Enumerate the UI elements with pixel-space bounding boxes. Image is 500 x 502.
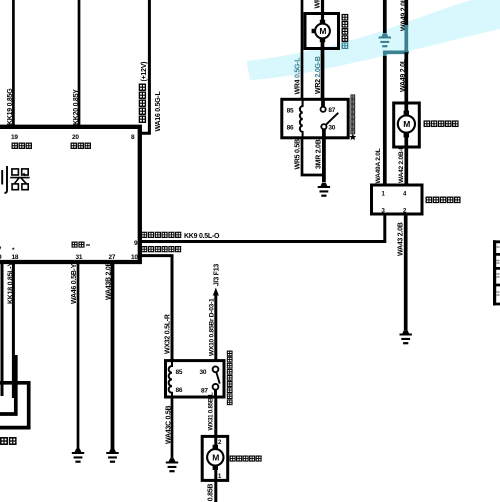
- svg-text:KK9 0.5L-O: KK9 0.5L-O: [184, 233, 220, 240]
- svg-text:WA46 0.5B-Y: WA46 0.5B-Y: [71, 263, 78, 304]
- wire WR4 to relay coil: [301, 0, 304, 99]
- wire WR1 above condenser fan: [321, 0, 324, 21]
- label 背光-: [72, 242, 90, 247]
- svg-text:J/3 F13: J/3 F13: [214, 264, 221, 286]
- label 内循环: [12, 143, 31, 148]
- wire WA49A to module pin1: [383, 56, 387, 185]
- svg-text:86: 86: [176, 387, 183, 394]
- svg-text:M: M: [319, 26, 326, 36]
- svg-text:WA42 2.0B-L: WA42 2.0B-L: [398, 146, 405, 183]
- servo motor box (bottom left, cut): [0, 355, 16, 414]
- label 后鼓风马达: [230, 456, 261, 461]
- ground for 3MR: [318, 183, 330, 197]
- front speed module box: [372, 185, 423, 214]
- svg-text:WR2 2.0G-B: WR2 2.0G-B: [315, 56, 322, 94]
- wire left edge pin: [1, 262, 4, 396]
- svg-text:30: 30: [200, 369, 207, 376]
- wire WA42 blower to module: [404, 136, 408, 185]
- wire WX33 below rear motor: [214, 468, 217, 502]
- condenser fan motor box: [305, 14, 339, 49]
- relay2 switch: [213, 366, 220, 397]
- svg-text:86: 86: [287, 125, 294, 132]
- ground for WA43: [400, 330, 412, 344]
- svg-text:10: 10: [131, 254, 138, 261]
- wire WA46 from pin31: [77, 262, 80, 449]
- svg-text:WX33 0.85B: WX33 0.85B: [208, 484, 215, 502]
- svg-text:WA43C 0.5B: WA43C 0.5B: [166, 405, 173, 444]
- condenser fan relay K1: [282, 99, 348, 138]
- label 前调速模块: [426, 197, 460, 202]
- wire WA43 to ground: [404, 214, 408, 330]
- teal wire jog: [385, 25, 407, 58]
- rear blower motor M: [207, 445, 223, 470]
- relay coil: [300, 99, 303, 138]
- wire rear blower control: [140, 256, 172, 361]
- wire stub to teal ground: [383, 0, 387, 33]
- svg-text:85: 85: [176, 369, 183, 376]
- label 鼓风机马达: [424, 121, 458, 126]
- wire WA43B from pin27: [111, 262, 115, 449]
- svg-text:18: 18: [12, 254, 19, 261]
- condenser fan motor M: [312, 20, 330, 42]
- svg-text:20: 20: [72, 134, 79, 141]
- svg-text:KK19 0.85G: KK19 0.85G: [7, 88, 14, 125]
- svg-text:WX31 0.85B-L: WX31 0.85B-L: [208, 392, 215, 430]
- label 外循环: [71, 143, 90, 148]
- A/C controller box U1: [0, 127, 140, 262]
- svg-text:WX10 0.85Br D-03-1: WX10 0.85Br D-03-1: [208, 298, 215, 356]
- svg-text:30: 30: [328, 125, 335, 132]
- svg-text:WR5 0.5B: WR5 0.5B: [294, 139, 301, 169]
- ground for WA43B: [106, 449, 118, 463]
- wire 3MR to ground: [322, 138, 326, 182]
- wire WX31 relay to rear motor: [214, 397, 217, 448]
- connector table right edge: [493, 240, 500, 305]
- wire WA49 into blower: [404, 52, 408, 112]
- relay2 coil: [169, 361, 172, 397]
- label 前鼓风机控制 KK9 0.5L-O: [142, 232, 220, 240]
- star marker: [349, 134, 356, 141]
- rear blower motor box: [202, 436, 228, 480]
- wire KK18 from pin18 down: [12, 262, 15, 398]
- label 冷凝器风扇: [342, 14, 348, 41]
- svg-text:31: 31: [76, 254, 83, 261]
- label 后鼓风机控制: [142, 247, 181, 252]
- svg-text:WA16 0.5G-L: WA16 0.5G-L: [155, 90, 162, 131]
- wire WX10 with arrow to fuse F13: [214, 294, 217, 361]
- label 冷凝器风扇继电器: [351, 95, 355, 134]
- svg-text:WR1 2.0R: WR1 2.0R: [315, 0, 322, 9]
- label 电机: [1, 438, 16, 444]
- svg-text:WA49A 2.0L: WA49A 2.0L: [375, 148, 382, 183]
- wire front blower control KK9: [140, 214, 385, 242]
- svg-text:KK18 0.85L-Y: KK18 0.85L-Y: [7, 262, 14, 304]
- highlight swoosh band: [247, 0, 500, 80]
- blower motor M: [398, 111, 415, 138]
- wire WR2 from motor to relay: [321, 41, 325, 99]
- wire WA49 upper: [404, 0, 408, 27]
- svg-text:3MR 2.0B: 3MR 2.0B: [315, 139, 322, 169]
- svg-text:(+12V): (+12V): [141, 62, 148, 82]
- wire WA16 compressor control: [140, 0, 150, 133]
- label 压缩机控制(+12V): [139, 62, 148, 122]
- svg-text:87: 87: [328, 107, 335, 114]
- rear blower unit relay K2: [166, 361, 225, 397]
- teal junction node: [404, 50, 409, 55]
- wire WR5 from relay coil: [302, 138, 324, 175]
- teal chassis ground: [379, 33, 391, 47]
- svg-text:M: M: [212, 453, 219, 463]
- ground for WA43C: [166, 458, 178, 472]
- svg-text:WA43B 2.0B: WA43B 2.0B: [106, 261, 113, 300]
- svg-text:WR4 0.5G-L: WR4 0.5G-L: [295, 57, 302, 95]
- ground for WA46: [72, 449, 84, 463]
- svg-text:WA43 2.0B: WA43 2.0B: [397, 222, 404, 256]
- svg-text:M: M: [403, 119, 410, 129]
- relay switch: [321, 99, 339, 138]
- wire WA43C to ground: [171, 397, 174, 458]
- svg-text:KK20 0.85Y: KK20 0.85Y: [73, 89, 80, 125]
- blower motor box: [394, 103, 420, 147]
- svg-text:WX32 0.5L-R: WX32 0.5L-R: [165, 314, 172, 354]
- svg-text:WA49 2.0L: WA49 2.0L: [400, 58, 407, 92]
- wire KK20 (x=79): [78, 0, 81, 127]
- svg-text:27: 27: [109, 254, 116, 261]
- svg-text:85: 85: [287, 108, 294, 115]
- svg-text:19: 19: [11, 134, 18, 141]
- label 后鼓风机单元继电器: [227, 351, 232, 405]
- big text 制器 (controller name, cut at left): [2, 166, 7, 193]
- wire KK19 (x=13.4): [12, 0, 15, 127]
